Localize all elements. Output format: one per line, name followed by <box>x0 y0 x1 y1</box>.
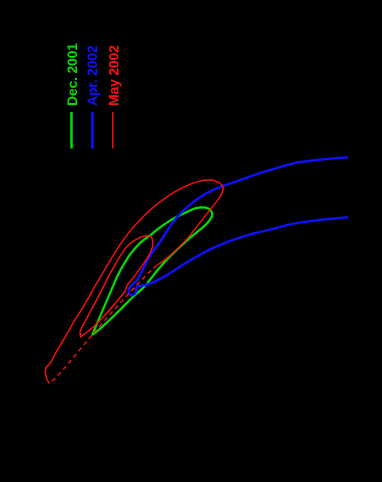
legend line blue <box>91 112 94 149</box>
svg-text:Dec. 2001: Dec. 2001 <box>64 43 80 106</box>
legend label Apr. 2002 <box>84 45 100 106</box>
curve Dec. 2001 green loop <box>93 207 213 334</box>
curve May 2002 red inner loop <box>80 236 153 337</box>
curve May 2002 red outer loop solid part <box>45 180 223 384</box>
legend line red <box>112 112 114 149</box>
svg-text:Apr. 2002: Apr. 2002 <box>84 45 100 106</box>
legend line green <box>70 112 73 149</box>
svg-text:May 2002: May 2002 <box>106 45 122 106</box>
legend label May 2002 <box>106 45 122 106</box>
curve May 2002 red outer loop dashed return <box>49 265 157 383</box>
legend label Dec. 2001 <box>64 43 80 106</box>
curve Apr. 2002 blue track with small loop and two right branches <box>129 157 349 295</box>
